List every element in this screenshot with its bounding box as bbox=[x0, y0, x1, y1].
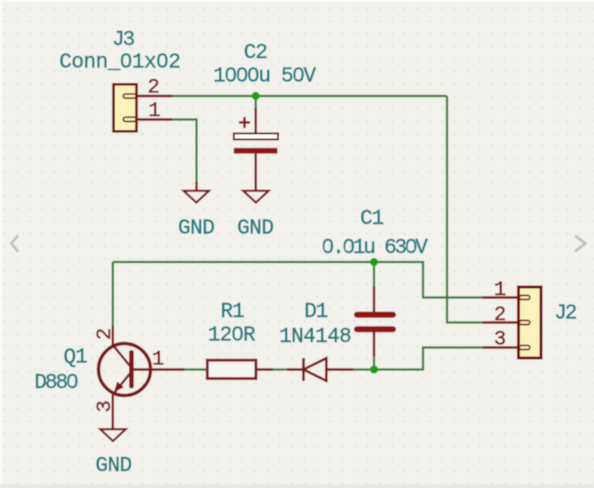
svg-text:J3: J3 bbox=[112, 29, 135, 52]
svg-text:2: 2 bbox=[494, 304, 506, 327]
svg-text:1: 1 bbox=[494, 279, 506, 302]
svg-text:2: 2 bbox=[147, 77, 159, 100]
svg-text:3: 3 bbox=[94, 400, 117, 412]
svg-text:3: 3 bbox=[494, 329, 506, 352]
svg-text:C1: C1 bbox=[360, 208, 384, 231]
svg-text:120R: 120R bbox=[208, 325, 256, 348]
svg-text:J2: J2 bbox=[554, 303, 577, 326]
svg-text:GND: GND bbox=[178, 218, 214, 241]
svg-text:Q1: Q1 bbox=[63, 347, 87, 370]
svg-text:C2: C2 bbox=[244, 42, 268, 65]
svg-text:1N4148: 1N4148 bbox=[279, 326, 351, 349]
svg-text:D1: D1 bbox=[304, 301, 328, 324]
svg-text:R1: R1 bbox=[220, 301, 244, 324]
svg-text:GND: GND bbox=[237, 218, 273, 241]
svg-text:1: 1 bbox=[152, 349, 164, 372]
svg-text:1: 1 bbox=[148, 100, 160, 123]
svg-text:GND: GND bbox=[95, 455, 131, 478]
svg-text:2: 2 bbox=[94, 328, 117, 340]
